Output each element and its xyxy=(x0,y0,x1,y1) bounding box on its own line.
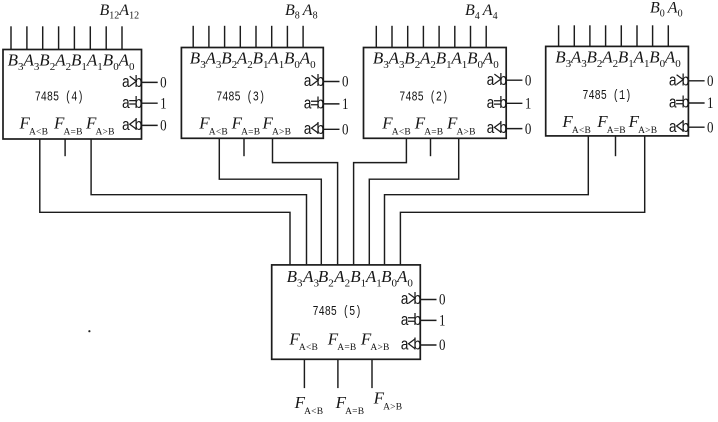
svg-text:B2: B2 xyxy=(587,48,603,70)
svg-text:0: 0 xyxy=(439,292,446,309)
svg-text:A>B: A>B xyxy=(96,128,115,138)
svg-text:A1: A1 xyxy=(267,49,284,71)
svg-text:B12A12: B12A12 xyxy=(100,2,140,22)
svg-text:A3: A3 xyxy=(388,49,405,71)
svg-text:B1: B1 xyxy=(436,49,452,71)
U1 input labels B3 A3 B2 A2 B1 A1 B0 A0 xyxy=(555,48,681,70)
wire U2 FA>B to U5 A1 xyxy=(369,138,458,265)
svg-text:a: a xyxy=(303,94,311,113)
wire U1 FA<B to U5 B0 xyxy=(385,136,589,265)
svg-text:B4A4: B4A4 xyxy=(465,2,498,22)
wire U5 FA>B output xyxy=(371,359,373,388)
svg-text:A3: A3 xyxy=(570,48,587,70)
wire U1 a<b output xyxy=(688,126,704,128)
svg-text:b: b xyxy=(681,71,689,90)
svg-text:1: 1 xyxy=(525,96,532,113)
svg-text:A>B: A>B xyxy=(370,343,389,353)
svg-text:B3: B3 xyxy=(190,49,206,71)
svg-text:A0: A0 xyxy=(118,51,135,73)
wire U3 FA=B stub (unconnected) xyxy=(243,138,245,156)
svg-text:A3: A3 xyxy=(205,49,222,71)
svg-text:B0: B0 xyxy=(649,48,665,70)
svg-text:B0: B0 xyxy=(381,267,397,289)
svg-text:0: 0 xyxy=(342,74,349,91)
svg-text:B1: B1 xyxy=(350,267,366,289)
svg-text:a: a xyxy=(303,72,311,91)
svg-text:a: a xyxy=(122,94,130,113)
wire U3 a=b output xyxy=(323,103,339,105)
svg-text:B0: B0 xyxy=(284,49,300,71)
svg-text:B0A0: B0A0 xyxy=(650,0,683,19)
svg-text:B1: B1 xyxy=(253,49,269,71)
wire U5 a=b output xyxy=(420,319,436,321)
svg-text:A0: A0 xyxy=(299,49,316,71)
svg-text:a: a xyxy=(486,94,494,113)
wire U2 FA=B stub (unconnected) xyxy=(430,138,432,156)
svg-text:B0: B0 xyxy=(103,51,119,73)
svg-text:a: a xyxy=(669,71,677,90)
svg-text:B8A8: B8A8 xyxy=(285,2,318,22)
svg-text:0: 0 xyxy=(707,73,714,90)
U4 output label a>b xyxy=(122,73,143,92)
svg-text:A<B: A<B xyxy=(209,128,228,138)
svg-text:A2: A2 xyxy=(601,48,618,70)
svg-text:A<B: A<B xyxy=(392,128,411,138)
svg-text:A2: A2 xyxy=(54,51,71,73)
U2 output label a>b xyxy=(486,71,507,90)
svg-text:A2: A2 xyxy=(419,49,436,71)
U4 input pin stubs (8 wires) xyxy=(11,26,122,49)
svg-text:a: a xyxy=(122,116,130,135)
svg-text:A2: A2 xyxy=(333,267,350,289)
svg-text:b: b xyxy=(316,120,324,139)
svg-text:B3: B3 xyxy=(287,267,303,289)
wire U1 FA>B to U5 A0 xyxy=(400,136,644,265)
svg-text:1: 1 xyxy=(439,313,446,330)
svg-text:A>B: A>B xyxy=(457,128,476,138)
svg-text:A<B: A<B xyxy=(572,126,591,136)
svg-text:7485 (3): 7485 (3) xyxy=(216,89,265,105)
U1 output label a<b xyxy=(669,118,690,137)
svg-text:B1: B1 xyxy=(618,48,634,70)
svg-text:1: 1 xyxy=(342,96,349,113)
svg-text:A1: A1 xyxy=(633,48,650,70)
wire U2 a<b output xyxy=(506,128,522,130)
svg-text:A<B: A<B xyxy=(304,407,323,417)
svg-text:0: 0 xyxy=(439,337,446,354)
svg-text:b: b xyxy=(499,71,507,90)
svg-text:B3: B3 xyxy=(555,48,571,70)
svg-text:A1: A1 xyxy=(365,267,382,289)
wire U2 a=b output xyxy=(506,102,522,104)
wire U4 FA<B to U5 B3 xyxy=(40,139,290,265)
wire U3 a<b output xyxy=(323,128,339,130)
stray ink dot xyxy=(88,330,90,332)
wire U4 a=b output xyxy=(142,102,158,104)
svg-text:A3: A3 xyxy=(23,51,40,73)
svg-text:A>B: A>B xyxy=(272,128,291,138)
comparator U3 (7485 (3)) body xyxy=(181,48,323,139)
U4 input labels B3 A3 B2 A2 B1 A1 B0 A0 xyxy=(8,51,135,73)
wire U5 FA=B output xyxy=(337,359,339,388)
wire U3 a>b output xyxy=(323,81,339,83)
U5 output label a=b xyxy=(400,311,421,330)
U4 output label a=b xyxy=(122,94,143,113)
U2 input labels B3 A3 B2 A2 B1 A1 B0 A0 xyxy=(373,49,499,71)
svg-text:B3: B3 xyxy=(373,49,389,71)
svg-text:B2: B2 xyxy=(39,51,55,73)
svg-text:A=B: A=B xyxy=(241,128,260,138)
svg-text:A<B: A<B xyxy=(29,128,48,138)
wire U2 a>b output xyxy=(506,79,522,81)
svg-text:A>B: A>B xyxy=(638,126,657,136)
svg-text:A1: A1 xyxy=(450,49,467,71)
svg-text:A3: A3 xyxy=(302,267,319,289)
svg-text:A2: A2 xyxy=(236,49,253,71)
svg-text:A0: A0 xyxy=(664,48,681,70)
svg-text:B3: B3 xyxy=(8,51,24,73)
wire U3 FA>B to U5 A2 xyxy=(273,138,338,265)
svg-text:a: a xyxy=(400,336,408,355)
wire U4 a>b output xyxy=(142,81,158,83)
wire U2 FA<B to U5 B1 xyxy=(354,138,407,265)
svg-text:b: b xyxy=(681,118,689,137)
svg-text:7485 (2): 7485 (2) xyxy=(399,89,448,105)
svg-text:1: 1 xyxy=(160,95,167,112)
U3 output label a=b xyxy=(303,94,324,113)
svg-text:b: b xyxy=(134,73,142,92)
wire U4 a<b output xyxy=(142,124,158,126)
U2 output label a=b xyxy=(486,94,507,113)
svg-text:a: a xyxy=(486,71,494,90)
svg-text:0: 0 xyxy=(525,121,532,138)
svg-text:a: a xyxy=(400,311,408,330)
U5 input labels B3 A3 B2 A2 B1 A1 B0 A0 xyxy=(287,267,414,289)
U3 input labels B3 A3 B2 A2 B1 A1 B0 A0 xyxy=(190,49,316,71)
svg-text:0: 0 xyxy=(160,75,167,92)
svg-text:b: b xyxy=(134,116,142,135)
svg-text:a: a xyxy=(303,120,311,139)
svg-text:B2: B2 xyxy=(318,267,334,289)
comparator U4 (7485 (4)) body xyxy=(3,50,142,140)
svg-text:b: b xyxy=(413,336,421,355)
svg-text:A0: A0 xyxy=(482,49,499,71)
svg-text:B2: B2 xyxy=(221,49,237,71)
comparator U5 (7485 (5)) body xyxy=(272,265,421,359)
U3 output label a>b xyxy=(303,72,324,91)
svg-text:a: a xyxy=(400,290,408,309)
wire U5 a<b output xyxy=(420,344,436,346)
U1 input pin stubs (8 wires) xyxy=(559,25,669,46)
wire U5 FA<B output xyxy=(303,359,305,388)
svg-text:a: a xyxy=(669,118,677,137)
svg-text:0: 0 xyxy=(525,72,532,89)
svg-text:A=B: A=B xyxy=(345,407,364,417)
U2 input pin stubs (8 wires) xyxy=(376,26,486,48)
wire U1 a=b output xyxy=(688,102,704,104)
wire U4 FA=B stub (unconnected) xyxy=(64,139,66,156)
svg-text:1: 1 xyxy=(707,95,714,112)
svg-text:a: a xyxy=(122,73,130,92)
U3 output label a<b xyxy=(303,120,324,139)
svg-text:0: 0 xyxy=(160,118,167,135)
wire U3 FA<B to U5 B2 xyxy=(219,138,321,265)
svg-text:B2: B2 xyxy=(404,49,420,71)
U3 input pin stubs (8 wires) xyxy=(193,26,303,48)
wire U4 FA>B to U5 A3 xyxy=(91,139,306,265)
svg-text:B1: B1 xyxy=(71,51,87,73)
wire U1 a>b output xyxy=(688,80,704,82)
svg-text:B0: B0 xyxy=(467,49,483,71)
svg-text:a: a xyxy=(669,94,677,113)
U5 output label a<b xyxy=(400,336,421,355)
svg-text:7485 (4): 7485 (4) xyxy=(35,90,84,106)
comparator U1 (7485 (1)) body xyxy=(546,46,689,135)
svg-text:b: b xyxy=(499,119,507,138)
svg-text:b: b xyxy=(413,290,421,309)
svg-text:A0: A0 xyxy=(396,267,413,289)
comparator U2 (7485 (2)) body xyxy=(364,48,507,139)
svg-text:A=B: A=B xyxy=(337,343,356,353)
U2 output label a<b xyxy=(486,119,507,138)
svg-text:7485 (1): 7485 (1) xyxy=(582,88,631,104)
wire U5 a>b output xyxy=(420,299,436,301)
svg-text:7485 (5): 7485 (5) xyxy=(313,304,362,320)
svg-text:A=B: A=B xyxy=(424,128,443,138)
U5 output label a>b xyxy=(400,290,421,309)
svg-text:A<B: A<B xyxy=(299,343,318,353)
svg-text:A=B: A=B xyxy=(607,126,626,136)
svg-text:A=B: A=B xyxy=(64,128,83,138)
U1 output label a=b xyxy=(669,94,690,113)
U1 output label a>b xyxy=(669,71,690,90)
svg-text:A1: A1 xyxy=(86,51,103,73)
svg-text:b: b xyxy=(316,72,324,91)
svg-text:a: a xyxy=(486,119,494,138)
U4 output label a<b xyxy=(122,116,143,135)
svg-text:A>B: A>B xyxy=(383,402,402,412)
svg-text:0: 0 xyxy=(707,119,714,136)
svg-text:0: 0 xyxy=(342,122,349,139)
wire U1 FA=B stub (unconnected) xyxy=(615,136,617,156)
